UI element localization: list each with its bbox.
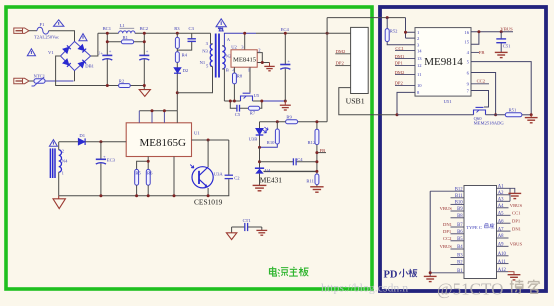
svg-text:CT1: CT1: [243, 218, 252, 223]
svg-text:A10: A10: [498, 252, 507, 257]
svg-text:DM1: DM1: [395, 54, 405, 59]
ground (triangle) BC2 return: [139, 90, 150, 97]
mosfet U5: [241, 93, 260, 101]
node drain junction: [176, 91, 179, 94]
ground (bars) C51: [495, 52, 508, 57]
svg-text:DP2: DP2: [336, 61, 345, 66]
svg-text:EC3: EC3: [107, 157, 116, 162]
capacitor BC1: [102, 26, 112, 86]
svg-text:N1: N1: [200, 60, 206, 65]
wire L to fuse: [29, 30, 37, 32]
svg-text:R10: R10: [267, 140, 275, 145]
svg-text:R11: R11: [306, 179, 314, 184]
primary bottom rail: [59, 195, 230, 197]
core: [215, 34, 217, 78]
svg-text:R8: R8: [237, 74, 243, 79]
svg-text:N4: N4: [62, 159, 68, 164]
svg-text:B11: B11: [455, 194, 463, 199]
sync rectifier controller U2 ME8415: [231, 33, 261, 72]
power board green frame 电源主板: [6, 7, 372, 289]
wire LED cathode down to U4: [259, 147, 261, 168]
label PD小板: [384, 269, 418, 281]
svg-text:A7: A7: [498, 227, 504, 232]
svg-text:EC4: EC4: [281, 27, 290, 32]
svg-text:B6: B6: [457, 230, 463, 235]
bridge rectifier DB1: [48, 41, 103, 70]
svg-text:A11: A11: [498, 260, 507, 265]
svg-text:U51: U51: [444, 99, 453, 104]
svg-text:CC2: CC2: [477, 79, 486, 84]
inductor L1: [119, 23, 135, 33]
ground (bars) TypeC left: [424, 276, 437, 281]
svg-text:C51: C51: [503, 44, 511, 49]
diode D2: [174, 68, 189, 74]
svg-text:R4: R4: [182, 52, 188, 57]
net label FB pin4: [471, 50, 484, 55]
svg-text:L1: L1: [120, 23, 126, 28]
ground (triangle) CT1 left: [226, 233, 236, 240]
svg-text:R12: R12: [308, 140, 316, 145]
wire USB shield to PD gnd net: [339, 88, 397, 115]
svg-text:DP1: DP1: [443, 229, 452, 234]
svg-text:A6: A6: [498, 219, 504, 224]
USB connector USB1: [346, 27, 369, 105]
svg-text:R3: R3: [174, 26, 180, 31]
warning triangle 3: [79, 34, 87, 41]
svg-text:R51: R51: [509, 107, 517, 112]
svg-text:B8: B8: [457, 214, 463, 219]
ground (bars) R11: [310, 187, 323, 192]
transformer T1: [200, 33, 232, 77]
wire D2 to drain node: [176, 74, 178, 111]
U1 sense pins to R5 R6: [137, 157, 149, 170]
net label CC1 pin14: [395, 46, 415, 51]
svg-text:ME431: ME431: [260, 175, 282, 184]
svg-text:A1: A1: [498, 185, 504, 190]
SR rail blue segment to EC4 ground: [262, 100, 286, 102]
ground (bars) CT1 right: [256, 230, 267, 235]
wire TypeC B12 B1 shield to ground: [429, 191, 431, 276]
resistor R12: [308, 122, 319, 174]
resistor R8: [233, 67, 243, 101]
svg-text:A5: A5: [498, 212, 504, 217]
svg-text:14: 14: [417, 48, 422, 53]
capacitor BC2: [139, 26, 149, 86]
ground (bars) U2: [264, 63, 274, 71]
wire R2 right to ground column: [130, 86, 144, 90]
secondary winding N2: [222, 46, 225, 69]
svg-text:B3: B3: [457, 254, 463, 259]
wire NTC to bridge: [45, 80, 74, 82]
wire bridge right to top rail: [91, 33, 98, 56]
svg-text:U3A: U3A: [214, 172, 224, 177]
svg-text:NTC1: NTC1: [34, 74, 46, 79]
net label DM1 pin13: [395, 54, 415, 59]
svg-text:B: B: [226, 68, 229, 73]
resistor R4: [175, 48, 187, 67]
svg-text:CC1: CC1: [395, 46, 404, 51]
VBUS top rail: [256, 32, 351, 34]
svg-text:B12: B12: [455, 187, 463, 192]
aux winding N4: [50, 148, 68, 178]
ground (bars) TypeC A1: [508, 193, 521, 198]
TypeC left pin names: [455, 187, 463, 274]
svg-text:PD: PD: [384, 270, 398, 281]
wire DC minus rail: [56, 56, 119, 86]
primary winding N1 N3: [210, 44, 212, 67]
capacitor C3: [177, 26, 196, 50]
svg-text:U5: U5: [254, 93, 260, 98]
svg-text:+: +: [287, 58, 290, 63]
svg-text:BC2: BC2: [140, 26, 149, 31]
svg-text:B2: B2: [457, 261, 463, 266]
watermark: [321, 280, 540, 299]
svg-text:+: +: [103, 154, 106, 159]
svg-text:VBUS: VBUS: [440, 244, 453, 249]
svg-text:DM2: DM2: [336, 49, 346, 54]
svg-text:N3: N3: [202, 49, 208, 54]
PWM controller U1 ME8165G: [126, 123, 200, 157]
ground (bars) EC4 / SR rail: [280, 101, 291, 110]
junction dots VBUS rail: [243, 32, 328, 35]
svg-text:MEM2518ADG: MEM2518ADG: [474, 121, 505, 126]
capacitor EC3: [96, 142, 116, 196]
pin16 pin15 VBUS wires: [471, 27, 513, 45]
PD board navy frame PD小板: [380, 7, 546, 291]
warning triangle 1: [54, 20, 64, 27]
junction dots input section: [106, 32, 179, 87]
svg-text:C4: C4: [297, 157, 303, 162]
U1 bottom pin to rail: [173, 157, 175, 196]
svg-text:15: 15: [464, 40, 469, 45]
svg-text:B7: B7: [457, 223, 463, 228]
U1 drain pins top rail: [139, 109, 177, 123]
svg-text:DP1: DP1: [395, 61, 404, 66]
net label DP2 USB: [335, 61, 350, 66]
wire secondary B down to SR rail: [223, 69, 225, 101]
svg-text:R1: R1: [123, 35, 129, 40]
wire A1 A2 A3 to ground: [510, 188, 515, 201]
snubber branch C5 R7: [230, 101, 261, 117]
wire U2 pin2 to ground: [257, 53, 269, 63]
net label DP2 pin10: [395, 81, 415, 86]
svg-text:DB1: DB1: [85, 64, 94, 69]
svg-text:16: 16: [464, 30, 469, 35]
resistor R1 row: [107, 35, 144, 44]
gnd net wire under Q60: [397, 114, 505, 116]
svg-text:FB: FB: [479, 50, 485, 55]
svg-text:C3: C3: [189, 26, 195, 31]
ground (bars) U4: [253, 185, 267, 190]
svg-text:DN1: DN1: [443, 222, 453, 227]
svg-text:VBUS: VBUS: [510, 203, 523, 208]
wire pin5 down right side: [471, 62, 531, 115]
svg-text:+: +: [109, 49, 112, 54]
wire bridge bottom vertex down: [74, 71, 76, 82]
warning triangle T1: [216, 19, 226, 32]
warning triangle 2: [27, 49, 35, 56]
net label CC2 pin9: [471, 79, 489, 84]
svg-text:A2: A2: [498, 191, 504, 196]
svg-text:ME8415: ME8415: [233, 57, 257, 64]
svg-text:11: 11: [417, 72, 422, 77]
svg-text:A4: A4: [498, 204, 504, 209]
SR source rail: [224, 100, 261, 102]
thermistor NTC1: [32, 74, 46, 86]
svg-text:D2: D2: [183, 68, 189, 73]
ground (bars) R51: [525, 113, 538, 123]
top HV rail: [98, 32, 211, 34]
junction dots bottom rail: [99, 194, 209, 197]
ground (bars) TypeC A12: [508, 272, 521, 280]
connector P1 L input: [14, 28, 29, 33]
connector P2 N input: [14, 78, 29, 83]
wire to U51 pins 1 2: [406, 18, 416, 38]
svg-text:12: 12: [417, 63, 422, 68]
svg-text:U2: U2: [231, 44, 237, 49]
svg-text:U4: U4: [265, 168, 271, 173]
U1 right pin to collector node: [192, 139, 229, 141]
svg-text:13: 13: [417, 56, 422, 61]
wire fuse to bridge: [49, 31, 75, 42]
svg-text:BC1: BC1: [103, 26, 112, 31]
VBUS riser and feedback tap: [298, 18, 328, 122]
warning triangle N4: [49, 140, 57, 147]
svg-text:B9: B9: [457, 207, 463, 212]
svg-text:V1: V1: [48, 50, 54, 55]
svg-text:A3: A3: [498, 198, 504, 203]
label 电源主板: [270, 267, 309, 277]
resistor R3: [174, 26, 180, 48]
capacitor C51: [496, 32, 511, 53]
svg-text:C5: C5: [235, 112, 241, 117]
svg-text:C2: C2: [234, 175, 240, 180]
resistor R52: [385, 16, 415, 45]
svg-text:B5: B5: [457, 237, 463, 242]
fuse F1 T2AL250Vac: [34, 22, 59, 40]
svg-text:R9: R9: [286, 115, 292, 120]
svg-text:VBUS: VBUS: [440, 206, 453, 211]
wire U2 pin1 to U5 gate: [249, 67, 251, 92]
svg-text:FB: FB: [320, 148, 326, 153]
svg-text:F1: F1: [40, 22, 46, 27]
mosfet Q60 MEM2518ADG: [474, 107, 505, 125]
svg-text:CC2: CC2: [443, 236, 452, 241]
resistor R5: [135, 169, 142, 195]
ground (triangle) primary: [53, 196, 65, 209]
svg-text:DP1: DP1: [512, 218, 521, 223]
opto transistor U3A CES1019: [190, 140, 223, 207]
svg-text:B10: B10: [455, 201, 463, 206]
net label DM2 pin11: [395, 70, 415, 75]
wire N4 top to D1: [58, 142, 60, 150]
svg-text:CC1: CC1: [512, 211, 521, 216]
svg-text:VBUS: VBUS: [510, 242, 523, 247]
svg-text:R5: R5: [135, 170, 141, 175]
svg-text:A12: A12: [498, 268, 507, 273]
resistor R2: [119, 78, 131, 87]
diode D1: [78, 133, 85, 145]
svg-text:@51CTO: @51CTO: [437, 280, 503, 299]
TypeC right pin names: [498, 185, 507, 273]
wire secondary A to VBUS rail (blue segment): [224, 33, 256, 46]
svg-text:USB1: USB1: [346, 97, 365, 106]
svg-text:ME8165G: ME8165G: [140, 137, 187, 149]
resistor R9: [260, 115, 298, 124]
svg-text:DM2: DM2: [395, 70, 405, 75]
svg-text:A9: A9: [498, 243, 504, 248]
primary lead from rail: [210, 33, 212, 44]
wire pin8 to gnd net: [397, 92, 415, 114]
Y-capacitor CT1: [232, 218, 262, 233]
wire drain to primary bottom: [177, 67, 212, 93]
svg-text:10: 10: [417, 83, 422, 88]
wire aux winding to D1 to U1 VCC pin: [59, 141, 126, 143]
svg-text:VBUS: VBUS: [500, 27, 513, 32]
net label DP1 pin12: [395, 61, 415, 66]
svg-text:TYPE C: TYPE C: [466, 225, 482, 230]
wire pin7 to Q60 gate: [471, 91, 489, 108]
svg-text:DN1: DN1: [512, 226, 522, 231]
svg-text:U3B: U3B: [249, 137, 258, 142]
net label DM2 USB: [335, 49, 350, 54]
wire top rail to PD board: [327, 17, 405, 19]
svg-text:U1: U1: [194, 131, 200, 136]
svg-text:DP2: DP2: [395, 81, 404, 86]
svg-text:R7: R7: [250, 110, 256, 115]
wire N to NTC: [29, 80, 34, 82]
svg-text:R52: R52: [390, 28, 398, 33]
svg-text:B4: B4: [457, 245, 463, 250]
capacitor C4: [260, 157, 317, 165]
TypeC left pin stubs B12..B1: [430, 191, 464, 273]
svg-text:R2: R2: [119, 78, 125, 83]
capacitor EC4: [280, 27, 290, 101]
net label FB main board: [315, 148, 326, 154]
wire N4 bottom to primary ground rail: [58, 172, 60, 196]
wire pin6 down: [471, 73, 496, 115]
svg-text:R6: R6: [147, 170, 153, 175]
TYPE C connector J1 母座: [464, 186, 497, 279]
resistor R10: [260, 122, 280, 148]
resistor R51: [505, 107, 531, 116]
shunt regulator U4 ME431: [255, 168, 317, 186]
TypeC right net labels: [510, 203, 523, 247]
junction dots SR rail: [229, 100, 287, 103]
TypeC right pin stubs A1..A12: [497, 188, 511, 271]
resistor R6: [146, 169, 153, 195]
svg-text:A8: A8: [498, 234, 504, 239]
capacitor C2: [225, 140, 241, 196]
svg-text:ME9814: ME9814: [424, 56, 463, 68]
PD controller U51 ME9814: [415, 28, 471, 104]
svg-text:T2AL250Vac: T2AL250Vac: [34, 35, 59, 40]
svg-text:https://blog.csdn.n: https://blog.csdn.n: [321, 281, 408, 295]
svg-text:+: +: [146, 49, 149, 54]
svg-text:CES1019: CES1019: [194, 198, 223, 207]
TypeC left net labels: [440, 206, 453, 249]
opto LED U3B: [249, 122, 268, 148]
resistor R11: [306, 174, 319, 187]
svg-text:T1: T1: [218, 27, 224, 32]
svg-text:D1: D1: [79, 133, 85, 138]
svg-text:B1: B1: [457, 269, 463, 274]
